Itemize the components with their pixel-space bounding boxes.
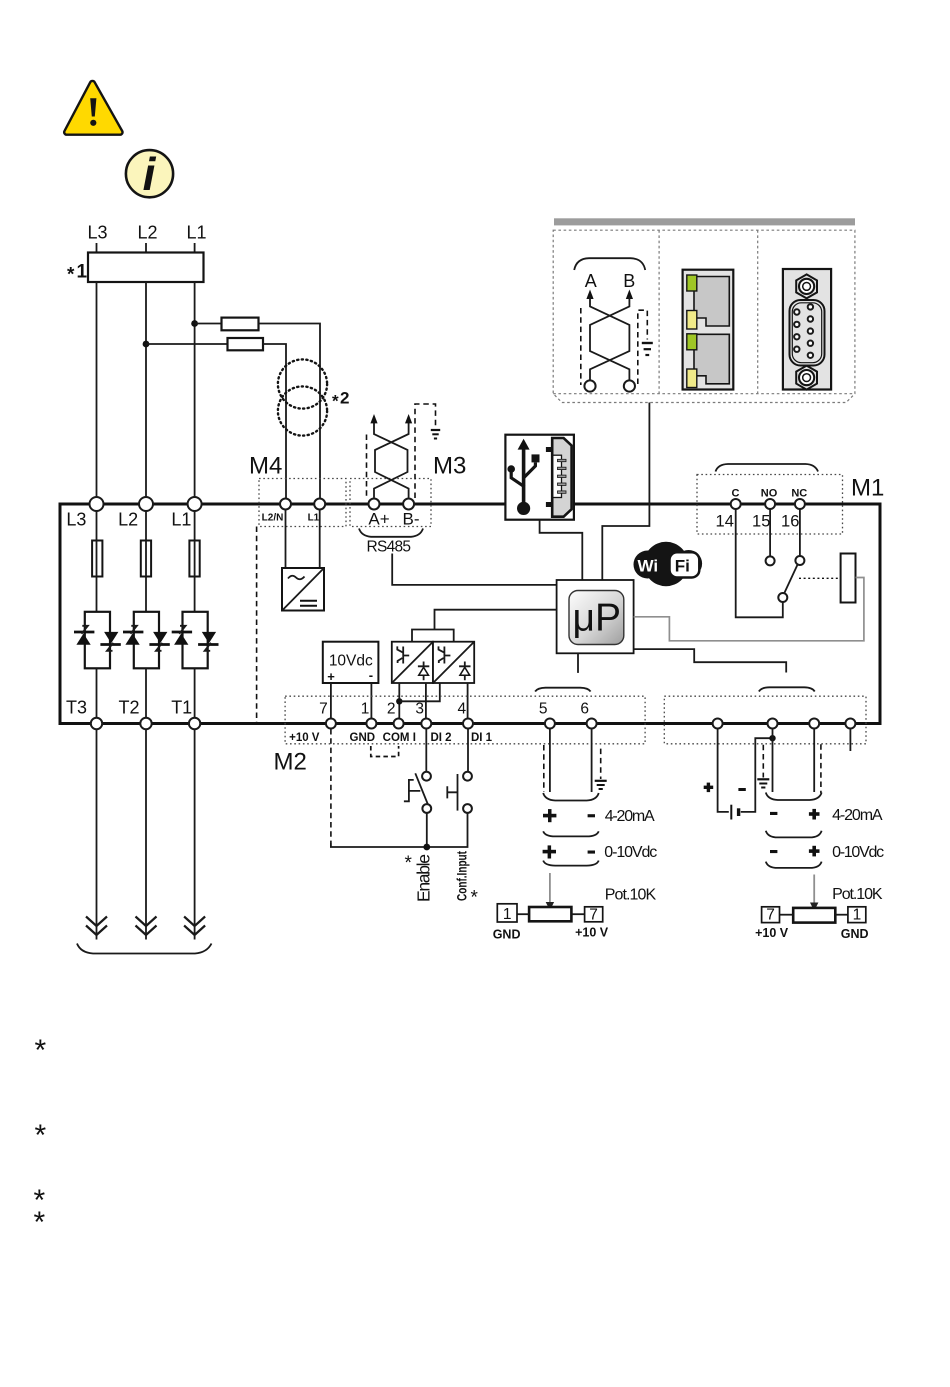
svg-text:M3: M3 (433, 453, 466, 480)
terminal an1 (analog right) (713, 719, 723, 729)
opto top bus (412, 630, 454, 642)
dashed jumper GND-COM (371, 746, 399, 757)
terminal 7 (M2) (326, 719, 336, 729)
svg-text:0-10Vdc: 0-10Vdc (832, 844, 884, 861)
battery (ext. source) (731, 805, 738, 820)
label M1 (851, 475, 884, 502)
bracket2 (left rows) (543, 861, 599, 866)
relay pivot contact (778, 593, 787, 602)
LED yellow jack1 (687, 311, 697, 330)
micro-USB connector icon (546, 438, 572, 517)
wire analog right t2 down (772, 729, 774, 792)
svg-text:+10 V: +10 V (575, 926, 609, 940)
svg-text:NC: NC (791, 488, 807, 500)
info icon (126, 148, 173, 200)
wire battery to junction (741, 738, 773, 812)
USB box (505, 435, 574, 520)
label B- (403, 510, 420, 529)
terminal an4 (analog right) (845, 719, 855, 729)
label M2 (274, 749, 307, 776)
gray link uP to coil (634, 578, 864, 641)
svg-text:L1: L1 (308, 513, 320, 524)
fuse F2 (228, 338, 264, 350)
svg-text:6: 6 (580, 701, 589, 718)
wire leg1 top (194, 511, 196, 612)
svg-text:Fi: Fi (675, 557, 690, 576)
wire panel to uP (602, 403, 649, 581)
load wire T3 with arrows (86, 729, 107, 940)
svg-text:GND: GND (493, 928, 521, 942)
bracket (left rows) (543, 831, 599, 836)
svg-text:0-10Vdc: 0-10Vdc (604, 844, 657, 861)
brace over terminals 5-6 (535, 688, 591, 692)
RS485 twisted pair (M3) (370, 414, 412, 498)
wire leg3 bottom (96, 668, 98, 717)
svg-text:COM I: COM I (383, 732, 416, 744)
svg-text:M4: M4 (249, 453, 282, 480)
wire RS485 to uP (392, 554, 556, 585)
label 6 (580, 701, 589, 718)
WiFi logo (634, 542, 703, 586)
svg-text:A+: A+ (368, 510, 389, 529)
load wire T1 with arrows (184, 729, 205, 940)
label M3 (433, 453, 466, 480)
label COM I (383, 732, 416, 744)
svg-text:i: i (143, 148, 157, 200)
ground (M3 shield) (431, 430, 440, 439)
wire leg1 bottom (194, 668, 196, 717)
label * (Conf.Input) (471, 888, 479, 909)
label 14 (716, 513, 734, 531)
wire L2 down (145, 282, 147, 498)
label 2 (387, 701, 396, 718)
label L3 (block) (66, 510, 86, 530)
svg-text:B-: B- (403, 510, 420, 529)
svg-text:1: 1 (361, 701, 370, 718)
svg-text:T3: T3 (66, 698, 87, 718)
polarity - (4-20mA right) (770, 812, 777, 815)
arrow to pot (right) (810, 875, 818, 912)
wire L2 to fuse F2 (146, 343, 228, 345)
svg-text:*: * (332, 392, 339, 411)
label 3 (415, 701, 424, 718)
load wire T2 with arrows (136, 729, 157, 940)
label DI 2 (430, 732, 451, 744)
label 1 (361, 701, 370, 718)
dotted actuator link (799, 577, 841, 579)
dashed separator (power/control) (256, 527, 258, 723)
label 15 (752, 513, 770, 531)
optocoupler OC2 (433, 642, 474, 683)
svg-text:L1: L1 (171, 510, 191, 530)
LED green jack1 (687, 275, 697, 291)
svg-text:Conf.Input: Conf.Input (455, 851, 470, 901)
DB9 pins (794, 304, 813, 358)
label GND (right pot) (841, 927, 869, 941)
wire box1-pot (left) (517, 913, 529, 915)
remote pair end circle B (624, 380, 635, 391)
polarity - (0-10Vdc left) (588, 851, 595, 854)
svg-text:14: 14 (716, 513, 734, 531)
polarity + (0-10Vdc left) (543, 845, 556, 858)
svg-text:10Vdc: 10Vdc (329, 653, 373, 670)
brace (remote RS485 pair) (574, 258, 645, 270)
microprocessor uP (557, 580, 634, 653)
label *2 (332, 389, 349, 411)
terminal an2 (analog right) (768, 719, 778, 729)
relay coil box (841, 554, 856, 603)
footnote asterisk 2 (35, 1119, 47, 1152)
svg-text:-: - (369, 668, 373, 683)
terminal T3 (91, 718, 102, 729)
terminal 1 (M2) (366, 719, 376, 729)
ground (input 5/6 shield) (595, 781, 607, 789)
node L2 (supply) (137, 223, 157, 254)
terminal NO/15 (M1) (765, 499, 775, 509)
footnote asterisk 3 (34, 1184, 46, 1217)
label A+ (368, 510, 389, 529)
relay NC contact (795, 556, 804, 565)
svg-text:7: 7 (319, 701, 328, 718)
label L1 (M4) (308, 513, 320, 524)
wire OC2 out to term4 (467, 683, 469, 719)
terminal 2 (M2) (394, 719, 404, 729)
label DI 1 (471, 732, 493, 744)
label 4-20mA (left) (605, 808, 655, 825)
terminal L1 (M4) (314, 499, 325, 510)
RJ45 jack 2 (694, 334, 729, 384)
DB9 connector body (783, 269, 831, 390)
svg-text:4-20mA: 4-20mA (605, 808, 655, 825)
svg-text:*: * (35, 1034, 47, 1067)
wire term6 down (591, 729, 593, 792)
label L2 (block) (118, 510, 138, 530)
wire fuse F2 to M4 L2/N terminal (263, 344, 286, 499)
label GND (350, 732, 376, 744)
shield dashes (remote pair) (581, 308, 648, 385)
pin box 7 (right pot) (762, 907, 780, 924)
svg-text:1: 1 (77, 262, 88, 283)
svg-text:+10 V: +10 V (289, 732, 320, 744)
potentiometer (left) (529, 907, 571, 921)
fuse leg3 (92, 541, 102, 577)
svg-text:B: B (623, 271, 635, 291)
polarity - (0-10Vdc right) (770, 850, 777, 853)
label C (732, 488, 740, 500)
wire USB to uP (540, 520, 583, 580)
label * (Enable) (405, 853, 413, 874)
remote pair end circle A (584, 380, 595, 391)
M4 terminal dotted box (259, 479, 346, 527)
M1 relay dotted box (697, 475, 843, 535)
label *1 (67, 262, 88, 286)
wire NO (769, 510, 771, 557)
DB9 screw top (796, 274, 817, 298)
svg-text:Pot.10K: Pot.10K (832, 886, 883, 903)
svg-text:L3: L3 (87, 223, 107, 243)
warning triangle icon (64, 81, 122, 135)
svg-text:+10 V: +10 V (755, 926, 789, 940)
svg-text:NO: NO (761, 488, 778, 500)
brace under load wires (77, 944, 212, 954)
wire 10Vdc+ to term7 (330, 683, 332, 719)
wire OC1 out to term3 (425, 683, 427, 719)
polarity - (battery) (738, 788, 745, 791)
svg-text:GND: GND (350, 732, 376, 744)
terminal L1 (188, 497, 202, 511)
shield dashes (analog right) (763, 744, 821, 793)
label +10 V (289, 732, 320, 744)
terminal 6 (M2) (587, 719, 597, 729)
RJ45 jack 1 (694, 277, 729, 327)
svg-text:*: * (67, 265, 75, 286)
connector panel dashed outline (553, 230, 855, 402)
polarity - (4-20mA left) (588, 814, 595, 817)
label GND (left pot) (493, 928, 521, 942)
label Conf.Input (rotated) (455, 851, 470, 901)
svg-text:Enable: Enable (414, 854, 434, 902)
label RS485 (367, 539, 412, 556)
junction analog right (769, 735, 775, 741)
svg-text:T1: T1 (171, 698, 192, 718)
wire C to pivot (736, 510, 783, 618)
svg-text:DI 2: DI 2 (430, 732, 451, 744)
wire pot-box7 (left) (571, 913, 584, 915)
10Vdc source box (323, 642, 379, 684)
wire 10Vdc- to term1 (370, 683, 372, 719)
brace under A+/B- (359, 529, 423, 537)
main power-controller block outline (60, 504, 880, 724)
label NO (761, 488, 778, 500)
svg-text:L2: L2 (118, 510, 138, 530)
svg-text:A: A (585, 271, 597, 291)
wire OC1 to term2 with junction (396, 683, 402, 719)
terminal B- (M3) (403, 499, 414, 510)
svg-text:μP: μP (573, 597, 621, 640)
svg-text:M2: M2 (274, 749, 307, 776)
node L3 (supply) (87, 223, 107, 254)
label 16 (781, 513, 799, 531)
shield dashes (M3 pair) (367, 404, 436, 498)
svg-text:C: C (732, 488, 740, 500)
wire box7-pot (right) (780, 914, 794, 916)
potentiometer (right) (793, 908, 835, 923)
wire uP to opto bus (435, 610, 557, 630)
terminal an3 (analog right) (809, 719, 819, 729)
footnote asterisk 1 (35, 1034, 47, 1067)
svg-text:*: * (35, 1119, 47, 1152)
stepped wire uP to right group (634, 649, 787, 672)
wire L2/N to psu (285, 510, 287, 569)
label L2/N (262, 513, 284, 524)
remote twisted pair wires (586, 290, 633, 381)
svg-text:*: * (471, 888, 479, 909)
svg-text:5: 5 (539, 701, 548, 718)
terminal T1 (189, 718, 200, 729)
M2 dotted box (285, 696, 645, 744)
footnote asterisk 4 (34, 1206, 46, 1239)
wire analog right t1 to battery (718, 729, 729, 812)
M3 terminal dotted box (350, 479, 431, 527)
svg-text:GND: GND (841, 927, 869, 941)
relay NO contact (766, 556, 775, 565)
polarity + (0-10Vdc right) (809, 846, 820, 857)
terminal L3 (90, 497, 104, 511)
thyristor pair Q2 (leg L2/T2) (123, 612, 170, 669)
label 7 (319, 701, 328, 718)
wire leg2 top (145, 511, 147, 612)
cable loop (analog right) (766, 793, 822, 801)
label 5 (539, 701, 548, 718)
node L1 (supply) (186, 223, 206, 254)
transformer *2 (dotted circles) (278, 359, 327, 435)
ethernet jacks body (683, 270, 734, 390)
wire analog right t4 stub (849, 729, 851, 751)
label Enable (rotated) (414, 854, 434, 902)
pin box 7 (left pot) (585, 906, 603, 923)
svg-text:7: 7 (766, 907, 775, 924)
polarity + (4-20mA right) (809, 809, 820, 820)
fuse leg1 (189, 541, 199, 577)
svg-text:L2: L2 (137, 223, 157, 243)
label T2 (118, 698, 139, 718)
svg-text:L2/N: L2/N (262, 513, 284, 524)
label Pot.10K (right) (832, 886, 883, 903)
svg-text:2: 2 (340, 389, 349, 408)
brace over analog right terminals (759, 687, 815, 691)
thyristor pair Q3 (leg L3/T3) (74, 612, 121, 669)
LED green jack2 (687, 334, 697, 350)
label B (623, 271, 635, 291)
arrow to pot (left) (546, 873, 554, 911)
svg-text:L1: L1 (186, 223, 206, 243)
wire L3 down (96, 282, 98, 498)
wire pot-box1 (right) (835, 914, 848, 916)
gray bar (panel top) (554, 218, 855, 225)
svg-text:RS485: RS485 (367, 539, 412, 556)
label Pot.10K (left) (605, 887, 657, 904)
wire analog right t3 down (813, 729, 815, 792)
wire term3 to Enable (425, 729, 427, 772)
svg-text:Pot.10K: Pot.10K (605, 887, 657, 904)
terminal L2 (139, 497, 153, 511)
DB9 D-shell (790, 300, 825, 366)
switch Enable (404, 772, 431, 847)
DB9 screw bottom (796, 366, 817, 390)
cable loop (input 5/6) (543, 793, 599, 801)
label 0-10Vdc (left) (604, 844, 657, 861)
dashed wire term7 to switches common (331, 729, 468, 847)
label T3 (66, 698, 87, 718)
wire L1 down (194, 282, 196, 498)
svg-text:4-20mA: 4-20mA (832, 807, 883, 824)
terminal NC/16 (M1) (795, 499, 805, 509)
optocoupler OC1 (392, 642, 433, 683)
wire term4 to Conf.Input (467, 729, 469, 772)
label 4 (457, 701, 466, 718)
wire leg2 bottom (145, 668, 147, 717)
bridge OC2 to COM (399, 683, 440, 701)
ground (analog right shield) (757, 779, 769, 787)
AC/DC power supply U2 (282, 568, 324, 611)
analog dotted box (right group) (664, 696, 866, 744)
junction switches common (423, 844, 430, 851)
svg-text:7: 7 (589, 906, 598, 923)
svg-text:4: 4 (457, 701, 466, 718)
label +10 V (right pot) (755, 926, 789, 940)
switch Conf.Input (447, 772, 472, 813)
wire term5 down (549, 729, 551, 792)
label NC (791, 488, 807, 500)
polarity + (battery) (704, 783, 714, 793)
terminal 5 (M2) (545, 719, 555, 729)
svg-text:DI 1: DI 1 (471, 732, 493, 744)
bracket (right rows) (766, 831, 822, 838)
svg-text:3: 3 (415, 701, 424, 718)
polarity + (4-20mA left) (543, 809, 556, 822)
junction on L1 wire (191, 320, 198, 327)
svg-text:15: 15 (752, 513, 770, 531)
label 0-10Vdc (right) (832, 844, 884, 861)
junction on L2 wire (143, 341, 150, 348)
label A (585, 271, 597, 291)
fuse leg2 (141, 541, 151, 577)
pin box 1 (right pot) (848, 907, 866, 924)
fuse F1 (222, 318, 259, 331)
label +10 V (left pot) (575, 926, 609, 940)
wire leg3 top (96, 511, 98, 612)
svg-text:1: 1 (503, 906, 512, 923)
wire NC (799, 510, 801, 557)
label M4 (249, 453, 282, 480)
LED yellow jack2 (687, 369, 697, 388)
svg-text:*: * (34, 1206, 46, 1239)
wire L1 to fuse F1 (195, 323, 222, 325)
svg-text:*: * (405, 853, 413, 874)
terminal C/14 (M1) (731, 499, 741, 509)
wire L1 to psu (319, 510, 321, 569)
terminal L2/N (M4) (280, 499, 291, 510)
brace over M1 (716, 464, 819, 472)
shield dashes (input 5/6) (544, 745, 601, 792)
svg-text:2: 2 (387, 701, 396, 718)
terminal 4 (M2) (463, 719, 473, 729)
label L1 (block) (171, 510, 191, 530)
svg-text:Wi: Wi (638, 557, 659, 576)
ground (remote shield) (642, 343, 653, 355)
terminal A+ (M3) (369, 499, 380, 510)
svg-text:M1: M1 (851, 475, 884, 502)
svg-text:+: + (327, 669, 335, 684)
breaker block *1 (88, 253, 204, 283)
label 4-20mA (right) (832, 807, 883, 824)
label T1 (171, 698, 192, 718)
terminal T2 (140, 718, 151, 729)
pin box 1 (left pot) (497, 904, 517, 923)
relay blade (784, 564, 798, 594)
svg-text:1: 1 (853, 907, 862, 924)
svg-text:L3: L3 (66, 510, 86, 530)
svg-text:T2: T2 (118, 698, 139, 718)
thyristor pair Q1 (leg L1/T1) (172, 612, 219, 669)
svg-text:16: 16 (781, 513, 799, 531)
bracket2 (right rows) (766, 862, 822, 868)
USB trident icon (507, 439, 539, 515)
wire uP bottom stub (577, 653, 579, 673)
wire fuse F1 to M4 L1 terminal (259, 324, 321, 499)
terminal 3 (M2) (421, 719, 431, 729)
